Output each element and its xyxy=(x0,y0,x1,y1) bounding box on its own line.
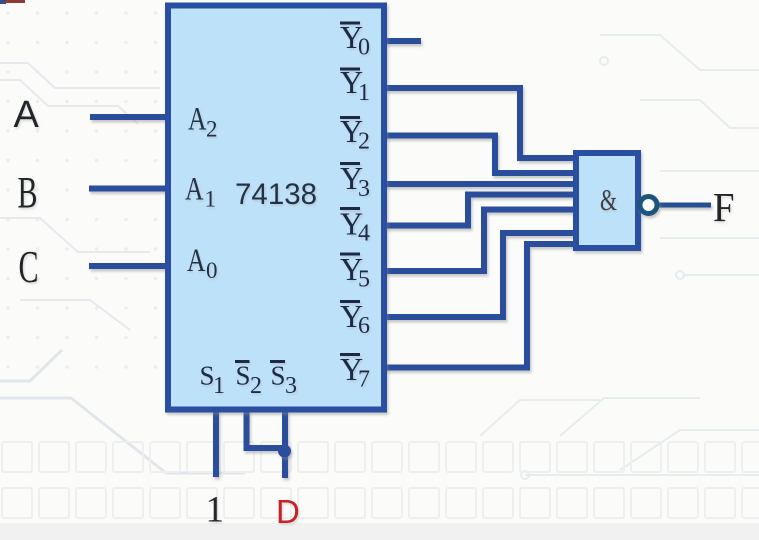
svg-text:S: S xyxy=(271,361,286,391)
svg-text:4: 4 xyxy=(358,221,370,247)
svg-text:S: S xyxy=(236,361,251,391)
svg-text:74138: 74138 xyxy=(235,178,317,211)
svg-text:3: 3 xyxy=(358,176,370,202)
svg-text:F: F xyxy=(713,184,735,230)
svg-text:A: A xyxy=(185,172,204,208)
svg-text:6: 6 xyxy=(358,313,370,339)
svg-text:B: B xyxy=(18,168,38,217)
svg-text:1: 1 xyxy=(358,80,370,106)
svg-text:D: D xyxy=(276,493,300,530)
svg-text:2: 2 xyxy=(250,373,262,399)
svg-text:7: 7 xyxy=(358,367,370,393)
svg-text:1: 1 xyxy=(213,373,225,399)
svg-text:2: 2 xyxy=(206,117,218,142)
svg-text:A: A xyxy=(188,102,207,138)
svg-text:1: 1 xyxy=(205,187,217,212)
svg-text:5: 5 xyxy=(358,267,370,293)
svg-text:3: 3 xyxy=(285,373,297,399)
svg-text:1: 1 xyxy=(206,490,225,531)
svg-text:2: 2 xyxy=(358,129,370,155)
svg-text:A: A xyxy=(187,243,206,279)
svg-text:A: A xyxy=(14,94,40,136)
svg-text:C: C xyxy=(19,241,39,292)
svg-text:0: 0 xyxy=(206,258,218,283)
svg-text:&: & xyxy=(600,182,617,217)
svg-text:0: 0 xyxy=(358,35,370,61)
